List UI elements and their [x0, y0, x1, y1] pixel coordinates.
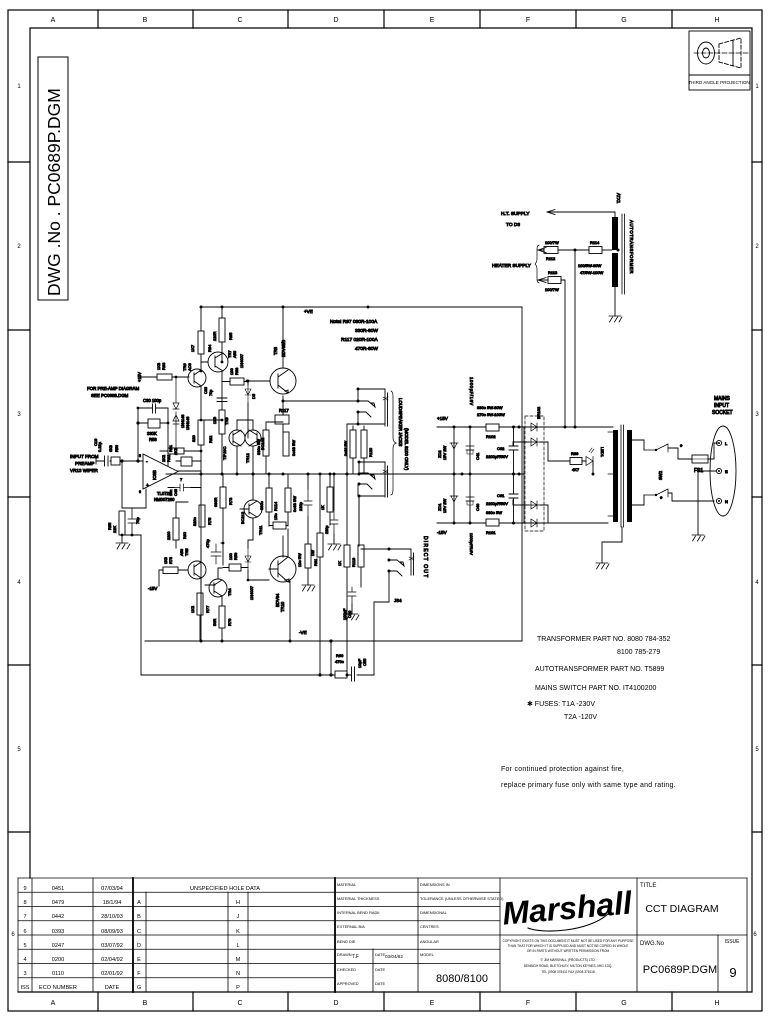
svg-text:1K2: 1K2 — [190, 605, 195, 613]
svg-text:1N4148: 1N4148 — [186, 417, 190, 430]
svg-text:R55: R55 — [107, 522, 112, 530]
svg-text:15o: 15o — [273, 513, 278, 520]
svg-text:D: D — [137, 943, 141, 949]
svg-text:-VE: -VE — [299, 630, 307, 635]
svg-text:DWG.No: DWG.No — [640, 941, 665, 947]
resistor R77 — [197, 593, 203, 615]
wire fuse to socket — [708, 443, 718, 459]
svg-text:R77: R77 — [205, 605, 210, 613]
svg-text:70p: 70p — [135, 517, 140, 524]
svg-text:EXTERNAL B/A: EXTERNAL B/A — [337, 924, 365, 929]
wire D5 — [247, 381, 249, 438]
svg-text:DATE: DATE — [105, 985, 120, 991]
bottom grid strip separators — [98, 992, 672, 1011]
zener ZD2 — [450, 443, 458, 449]
svg-text:+15V: +15V — [137, 372, 142, 382]
svg-text:T.F: T.F — [352, 954, 359, 960]
capacitor C62 — [509, 446, 518, 450]
svg-text:AUTOTRANSFORMER PART NO. T589: AUTOTRANSFORMER PART NO. T5899 — [535, 666, 664, 673]
loudspeaker jack 2 — [359, 462, 388, 497]
svg-text:R85: R85 — [228, 332, 233, 340]
wire C45 — [307, 474, 309, 544]
svg-text:N: N — [236, 971, 240, 977]
wire R76 — [221, 597, 223, 641]
svg-text:A: A — [51, 1000, 56, 1007]
capacitor C48 — [174, 484, 192, 491]
resistor R117 — [275, 415, 289, 424]
wire R113 R115 — [269, 474, 288, 522]
wire input shunt vertical — [121, 461, 123, 508]
svg-text:330o 5W-80W: 330o 5W-80W — [477, 405, 503, 410]
svg-text:PREAMP: PREAMP — [75, 461, 94, 466]
svg-text:R114: R114 — [590, 240, 600, 245]
wire switch to fuse — [668, 448, 692, 459]
resistor R73 — [220, 487, 226, 508]
svg-text:(MODEL 8100 ONLY): (MODEL 8100 ONLY) — [404, 428, 409, 471]
svg-text:4: 4 — [23, 957, 26, 963]
svg-text:10o 5W: 10o 5W — [297, 553, 302, 567]
transformer T1 — [613, 430, 618, 522]
wire HT — [547, 210, 615, 218]
dimensions block labels — [420, 882, 504, 957]
material block labels — [337, 882, 403, 986]
wire jack verticals — [347, 389, 359, 546]
svg-text:56R: 56R — [212, 619, 217, 626]
wire C43 — [333, 474, 335, 544]
svg-text:R117: R117 — [279, 408, 289, 413]
svg-text:ZD1: ZD1 — [437, 503, 442, 511]
svg-text:P: P — [236, 985, 240, 991]
wire ATX ground — [614, 287, 616, 316]
third angle projection symbol: cone — [719, 38, 741, 68]
svg-text:replace primary fuse only with: replace primary fuse only with same type… — [501, 782, 676, 789]
svg-text:C19: C19 — [93, 438, 98, 446]
brace loudspeaker jacks — [391, 391, 396, 495]
fuse FS1 — [692, 455, 708, 463]
svg-text:H: H — [236, 900, 240, 906]
transistor TR5 — [188, 561, 206, 579]
wire C48 — [168, 487, 201, 489]
svg-text:TIP29C: TIP29C — [222, 446, 227, 460]
svg-text:220R: 220R — [212, 331, 217, 341]
brace heater supply — [535, 245, 539, 283]
node bottom rail — [200, 640, 203, 643]
resistor R56 — [111, 457, 120, 465]
capacitor C54 — [128, 508, 136, 535]
svg-text:C61: C61 — [497, 493, 505, 498]
wire R77 — [199, 615, 201, 641]
wire TR8 — [248, 307, 368, 415]
svg-text:820o: 820o — [192, 516, 197, 526]
svg-text:470R-80W: 470R-80W — [355, 346, 378, 352]
svg-text:0110: 0110 — [52, 971, 64, 977]
wire R59 — [226, 567, 248, 569]
wire R119b R120 — [353, 426, 364, 474]
svg-text:TEL (0908 375411 FAX (0908 376: TEL (0908 375411 FAX (0908 376118 — [541, 970, 595, 974]
svg-text:330o: 330o — [259, 500, 264, 510]
svg-text:1N4007: 1N4007 — [239, 353, 244, 368]
svg-text:MODEL: MODEL — [420, 952, 435, 957]
svg-text:C: C — [237, 1000, 242, 1007]
svg-text:BC212: BC212 — [240, 511, 245, 524]
svg-text:47/5W-100W: 47/5W-100W — [580, 270, 603, 275]
resistor R81 — [181, 457, 192, 466]
svg-text:1000µF/16V: 1000µF/16V — [469, 377, 474, 406]
grid numbers right — [753, 84, 759, 938]
svg-text:R82: R82 — [208, 435, 213, 443]
svg-text:2200µF/50V: 2200µF/50V — [486, 501, 508, 506]
svg-text:MATERIAL THICKNESS: MATERIAL THICKNESS — [337, 896, 380, 901]
svg-text:K: K — [236, 929, 240, 935]
svg-text:R81: R81 — [169, 445, 173, 452]
svg-text:10n: 10n — [169, 490, 173, 496]
wire driver column x201 — [200, 387, 202, 641]
wire R63 — [319, 474, 321, 675]
svg-text:© JIM MARSHALL (PRODUCTS) LTD: © JIM MARSHALL (PRODUCTS) LTD. — [541, 958, 596, 962]
capacitor C49 — [211, 544, 221, 564]
resistor R65 — [327, 487, 333, 512]
svg-text:TR5: TR5 — [184, 548, 189, 556]
svg-text:SEE PC0688.DGM: SEE PC0688.DGM — [91, 393, 129, 398]
svg-text:+: + — [146, 483, 149, 489]
svg-text:VR13 WIPER: VR13 WIPER — [70, 468, 99, 473]
svg-text:TR9: TR9 — [224, 417, 229, 425]
wire C20 — [351, 604, 353, 614]
ground C20 — [346, 614, 359, 620]
svg-text:INPUT FROM: INPUT FROM — [70, 454, 99, 459]
svg-text:330o 5W: 330o 5W — [486, 510, 502, 515]
svg-text:M: M — [236, 957, 241, 963]
unspecified hole data table — [137, 886, 260, 991]
capacitor C45 — [304, 489, 312, 517]
svg-text:820: 820 — [191, 435, 196, 442]
svg-text:5: 5 — [139, 454, 141, 458]
svg-text:330o 5W: 330o 5W — [256, 439, 261, 455]
grid letters bottom — [51, 1000, 720, 1007]
capacitor C19 — [96, 456, 108, 466]
svg-text:R102: R102 — [486, 434, 496, 439]
DWG number box — [38, 57, 68, 300]
svg-text:L: L — [236, 943, 239, 949]
svg-text:70p: 70p — [209, 390, 213, 396]
svg-text:For continued protection again: For continued protection against fire, — [501, 766, 624, 773]
svg-text:D: D — [333, 1000, 338, 1007]
svg-text:H: H — [714, 17, 719, 24]
svg-text:02/04/92: 02/04/92 — [101, 957, 123, 963]
revision table text — [20, 886, 122, 991]
svg-text:COPYRIGHT EXISTS ON THIS DOCUM: COPYRIGHT EXISTS ON THIS DOCUMENT.IT MUS… — [502, 939, 633, 943]
node bottom run — [318, 673, 321, 676]
resistor R113 — [266, 488, 272, 512]
svg-text:J: J — [237, 914, 240, 920]
svg-text:6K8: 6K8 — [109, 445, 113, 452]
loudspeaker jack 1 — [358, 389, 388, 426]
svg-text:0247: 0247 — [52, 943, 64, 949]
wire TR7 base row — [188, 362, 208, 377]
resistor R61 — [305, 544, 311, 568]
svg-text:C40: C40 — [475, 503, 480, 511]
wire R61 ground — [307, 568, 309, 585]
ground input — [116, 543, 130, 549]
svg-text:ANGULAR: ANGULAR — [420, 939, 439, 944]
svg-text:680R: 680R — [213, 497, 218, 507]
part numbers text block — [501, 636, 676, 789]
resistor R63 — [317, 533, 323, 557]
resistor R55 — [119, 511, 125, 535]
resistor R84 — [198, 331, 204, 354]
svg-text:0451: 0451 — [52, 886, 64, 892]
svg-text:TRANSFORMER PART NO. 8080 784: TRANSFORMER PART NO. 8080 784-352 — [537, 636, 671, 643]
svg-text:MAINS SWITCH PART NO. IT410020: MAINS SWITCH PART NO. IT4100200 — [535, 685, 656, 692]
svg-text:NM007280: NM007280 — [154, 497, 175, 502]
switch SW2 — [644, 444, 668, 497]
svg-text:3: 3 — [23, 971, 26, 977]
svg-text:THAN THAT FOR WHICH IT IS SUPP: THAN THAT FOR WHICH IT IS SUPPLIED AND M… — [508, 944, 629, 948]
wire bridge connections — [513, 442, 548, 523]
svg-text:R81: R81 — [166, 454, 171, 462]
svg-text:R117 020R-100A: R117 020R-100A — [341, 337, 379, 343]
resistor R118 — [344, 545, 350, 567]
svg-text:TR11: TR11 — [258, 525, 263, 535]
wire bottom feedback run — [141, 602, 374, 675]
svg-text:PC0689P.DGM: PC0689P.DGM — [643, 964, 717, 976]
svg-text:G: G — [621, 17, 626, 24]
svg-text:B: B — [143, 17, 148, 24]
ground R61 — [302, 585, 315, 591]
wire left loop vertical — [140, 535, 142, 675]
svg-text:C: C — [137, 929, 141, 935]
node input junction — [120, 459, 123, 462]
capacitor C33 — [217, 398, 227, 402]
wire misc joins — [192, 352, 226, 568]
transistor TR7 — [208, 352, 228, 372]
svg-text:6: 6 — [139, 490, 141, 494]
svg-text:ECO NUMBER: ECO NUMBER — [39, 985, 77, 991]
wire R80 — [176, 502, 188, 548]
resistor R113 — [548, 277, 561, 284]
wire transformer taps left — [608, 432, 613, 516]
svg-text:TOLERANCE (UNLESS OTHERWISE ST: TOLERANCE (UNLESS OTHERWISE STATED) — [420, 896, 504, 901]
svg-text:TR4: TR4 — [227, 588, 232, 596]
wire TR4/TR5 — [201, 545, 222, 593]
transistor TR9 — [229, 430, 245, 446]
transistor TR8 — [270, 368, 296, 394]
resistor R88 — [230, 378, 244, 385]
svg-text:1W: 1W — [310, 550, 315, 556]
svg-text:100/7W: 100/7W — [545, 287, 559, 292]
svg-text:100/7W: 100/7W — [545, 240, 559, 245]
svg-text:IC8B: IC8B — [152, 470, 157, 480]
svg-text:R76: R76 — [227, 618, 232, 626]
svg-text:C55: C55 — [362, 658, 367, 666]
svg-text:470o: 470o — [335, 659, 345, 664]
wire switch low to socket — [668, 493, 714, 501]
op-amp IC8B — [143, 454, 178, 489]
wire column — [347, 474, 361, 675]
svg-text:T2A -120V: T2A -120V — [564, 714, 597, 721]
svg-text:ISS: ISS — [20, 985, 29, 991]
svg-text:+VE: +VE — [304, 309, 313, 314]
diode D8 — [245, 548, 251, 570]
resistor R78 — [163, 567, 178, 574]
direct out jack — [389, 549, 414, 576]
svg-text:02/01/92: 02/01/92 — [101, 971, 123, 977]
svg-text:DIRECT OUT: DIRECT OUT — [422, 536, 428, 578]
svg-text:H: H — [714, 1000, 719, 1007]
svg-text:18/1/94: 18/1/94 — [103, 900, 122, 906]
svg-text:AC6: AC6 — [187, 362, 192, 371]
svg-text:1K: 1K — [321, 505, 325, 510]
svg-text:R56: R56 — [115, 445, 119, 452]
svg-text:DENBIGH ROAD, BLETCHLEY, MILTO: DENBIGH ROAD, BLETCHLEY, MILTON KEYNES. … — [524, 964, 613, 968]
diode D6 — [173, 377, 179, 409]
svg-text:A: A — [137, 900, 141, 906]
svg-text:CENTRES: CENTRES — [420, 924, 439, 929]
zener ZD1 — [450, 496, 458, 502]
svg-text:C62: C62 — [497, 446, 505, 451]
svg-text:-15V: -15V — [437, 530, 448, 535]
svg-text:AUTOTRANSFORMER: AUTOTRANSFORMER — [629, 220, 634, 274]
svg-text:C41: C41 — [475, 452, 480, 460]
svg-text:✱ FUSES: T1A -230V: ✱ FUSES: T1A -230V — [527, 700, 595, 708]
svg-text:0442: 0442 — [52, 914, 64, 920]
svg-text:TITLE: TITLE — [640, 883, 656, 889]
resistor R119b — [350, 430, 356, 458]
capacitor C30 — [138, 404, 168, 413]
title block frame — [18, 878, 747, 992]
wire R113 to rail — [561, 280, 565, 425]
svg-text:TR10: TR10 — [280, 601, 285, 612]
svg-text:BEND DIE: BEND DIE — [337, 939, 356, 944]
wire transformer primary right — [632, 440, 644, 505]
capacitor C41 — [466, 446, 474, 450]
wire R114 to ATX — [602, 249, 612, 251]
svg-text:220p: 220p — [325, 526, 329, 534]
svg-text:330R-80W: 330R-80W — [355, 328, 378, 334]
svg-text:9: 9 — [23, 886, 26, 892]
diode D7 — [173, 412, 179, 448]
svg-text:C: C — [237, 17, 242, 24]
transistor TR12 — [245, 430, 261, 446]
third angle projection box — [689, 31, 750, 90]
wire + input down — [132, 489, 146, 508]
svg-text:0479: 0479 — [52, 900, 64, 906]
bridge rectifier BR102 — [525, 416, 544, 531]
resistor R120 — [361, 430, 367, 458]
svg-text:R61: R61 — [313, 558, 318, 566]
svg-text:G: G — [137, 985, 141, 991]
svg-text:UNSPECIFIED HOLE DATA: UNSPECIFIED HOLE DATA — [190, 886, 260, 892]
svg-text:1N4148: 1N4148 — [181, 415, 185, 428]
wire +VE top rail — [201, 306, 522, 308]
svg-text:FOR PRE-AMP DIAGRAM: FOR PRE-AMP DIAGRAM — [87, 386, 139, 391]
svg-text:R75: R75 — [207, 517, 212, 525]
svg-text:R113: R113 — [548, 270, 558, 275]
svg-text:LOUDSPEAKER JACKS: LOUDSPEAKER JACKS — [398, 398, 403, 446]
node mid rail — [200, 473, 203, 476]
svg-text:07/03/94: 07/03/94 — [101, 886, 123, 892]
svg-text:INTERNAL BEND RADII: INTERNAL BEND RADII — [337, 910, 379, 915]
svg-text:A: A — [51, 17, 56, 24]
capacitor C43 — [330, 510, 338, 534]
svg-text:15V 2W: 15V 2W — [442, 499, 447, 513]
svg-text:ZD2: ZD2 — [437, 450, 442, 458]
svg-text:330K: 330K — [147, 431, 157, 436]
resistor R119 — [358, 545, 364, 567]
wire R73 — [222, 474, 224, 543]
ground ATX — [609, 316, 622, 322]
svg-text:B: B — [143, 1000, 148, 1007]
autotransformer ATX1 — [612, 217, 618, 250]
svg-text:1K8: 1K8 — [164, 557, 168, 564]
resistor R99 — [570, 458, 582, 465]
wire heater row2 — [538, 278, 548, 283]
svg-text:R83: R83 — [161, 362, 166, 370]
wire R99 — [548, 460, 586, 462]
wire TR11 — [240, 474, 253, 540]
resistor R75 — [199, 505, 205, 527]
svg-text:6: 6 — [23, 929, 26, 935]
svg-text:A56: A56 — [179, 548, 184, 556]
wire R88 — [222, 381, 248, 383]
svg-text:R59: R59 — [233, 552, 238, 560]
svg-text:-15V: -15V — [148, 586, 157, 591]
transistor TR6 — [188, 369, 206, 387]
resistor R116 — [283, 432, 289, 456]
svg-text:DIMENSIONAL: DIMENSIONAL — [420, 910, 448, 915]
wire R85 — [221, 307, 223, 352]
svg-text:DATE: DATE — [375, 967, 385, 972]
wire R81 — [160, 450, 201, 452]
svg-text:C30 100p: C30 100p — [143, 398, 162, 403]
wire +15V rail — [437, 426, 613, 428]
svg-text:F: F — [526, 17, 530, 24]
wire TR10 — [269, 536, 290, 641]
grid letters top — [51, 17, 720, 24]
svg-text:1N4007: 1N4007 — [249, 585, 254, 600]
transistor TR11 — [244, 500, 262, 518]
svg-text:TR8: TR8 — [273, 346, 278, 355]
svg-text:9: 9 — [729, 965, 736, 980]
resistor R86 — [219, 410, 225, 434]
wire R65 — [329, 474, 331, 525]
svg-text:THIRD ANGLE PROJECTION: THIRD ANGLE PROJECTION — [688, 80, 750, 85]
wire R62 — [269, 522, 288, 556]
wire TR9/TR12 — [237, 420, 253, 474]
svg-text:470p: 470p — [205, 538, 210, 548]
svg-text:A56: A56 — [232, 350, 237, 358]
transistor TR4 — [209, 579, 227, 597]
node top rail joins — [200, 306, 203, 309]
svg-text:OR IN PARTS WITHOUT WRITTEN PE: OR IN PARTS WITHOUT WRITTEN PERMISSION F… — [527, 949, 610, 953]
ground earth — [692, 535, 705, 541]
svg-text:CHECKED: CHECKED — [337, 967, 356, 972]
left grid strip separators — [8, 162, 30, 832]
svg-text:22K: 22K — [112, 526, 117, 533]
wire bottom riser — [330, 641, 332, 675]
resistor R59 — [229, 564, 241, 571]
svg-text:C48: C48 — [174, 489, 178, 496]
wire R112-R114 — [558, 249, 589, 251]
svg-text:F: F — [137, 971, 141, 977]
svg-text:1000µF/16V: 1000µF/16V — [469, 533, 474, 555]
svg-text:N: N — [725, 499, 728, 504]
right grid strip separators — [752, 162, 762, 832]
svg-text:03/07/92: 03/07/92 — [101, 943, 123, 949]
bridge diodes — [529, 423, 540, 431]
resistor R83 — [157, 374, 172, 380]
svg-text:1K7: 1K7 — [190, 344, 195, 352]
